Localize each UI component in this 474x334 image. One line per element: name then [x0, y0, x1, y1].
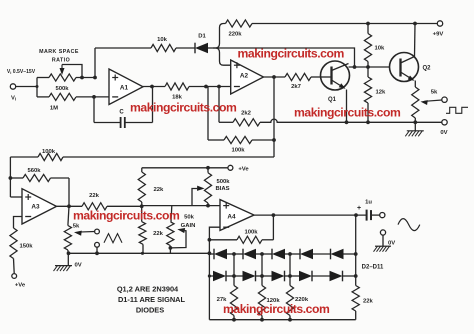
wire Q1 collector to divider [349, 65, 390, 69]
diode D6 [313, 249, 356, 260]
svg-text:makingcircuits.com: makingcircuits.com [223, 302, 330, 316]
svg-text:A1: A1 [120, 84, 129, 91]
wire 0V rail with hop over A2 line [260, 119, 442, 124]
svg-text:100k: 100k [244, 230, 258, 236]
svg-text:makingcircuits.com: makingcircuits.com [238, 47, 345, 61]
ground at output 0V [374, 240, 396, 251]
svg-text:D1: D1 [198, 34, 206, 40]
wire comparator node to Q1 collector [220, 48, 357, 69]
wire ladder column 3 [289, 254, 291, 276]
svg-text:Q2: Q2 [422, 66, 431, 72]
wire A3 - input to 150k [14, 217, 23, 229]
watermark 5 bottom [223, 302, 330, 316]
svg-text:22k: 22k [89, 193, 100, 199]
diode D7 [209, 271, 226, 282]
resistor 100k A2 feedback [208, 87, 276, 154]
svg-text:A2: A2 [240, 73, 249, 80]
resistor 500k mark-space potentiometer [37, 74, 97, 92]
svg-text:D2–D11: D2–D11 [362, 264, 384, 270]
svg-text:Vi 0.5V–15V: Vi 0.5V–15V [7, 69, 36, 75]
svg-text:makingcircuits.com: makingcircuits.com [130, 100, 237, 114]
resistor 560k [10, 168, 69, 207]
label D2-D11 [362, 264, 384, 270]
resistor 220k [226, 20, 253, 38]
svg-text:+: + [357, 205, 361, 212]
diode D9 [256, 271, 285, 282]
capacitor 1u output [357, 200, 380, 221]
ground below 5k [405, 122, 424, 136]
resistor 2k7 [285, 73, 321, 89]
svg-text:MARK SPACE: MARK SPACE [39, 49, 79, 55]
svg-text:makingcircuits.com: makingcircuits.com [294, 106, 401, 120]
resistor 120k [258, 276, 280, 320]
wire A1 + node up to 10k [94, 48, 96, 78]
svg-text:5k: 5k [73, 223, 80, 229]
svg-text:22k: 22k [153, 231, 164, 237]
label MARK SPACE RATIO [39, 49, 79, 63]
resistor 12k [364, 67, 386, 122]
potentiometer 50k GAIN [167, 206, 196, 254]
svg-text:0V: 0V [388, 240, 395, 246]
resistor 100k A4 feedback [209, 213, 275, 243]
op-amp A3 [22, 189, 57, 224]
resistor 150k [10, 228, 33, 273]
square wave symbol [446, 107, 468, 113]
svg-text:0V: 0V [75, 262, 82, 268]
svg-text:0V: 0V [440, 130, 447, 136]
watermark 2 mid-left [130, 100, 237, 114]
svg-text:50k: 50k [184, 214, 195, 220]
watermark 1 top [238, 47, 345, 61]
wire D1 to branch node [208, 47, 220, 49]
wire branch up to 220k [213, 24, 226, 49]
resistor 1M [37, 93, 109, 111]
ground at A3 0V [54, 253, 82, 271]
svg-text:GAIN: GAIN [181, 223, 196, 229]
diode D5 [285, 249, 313, 260]
svg-text:Vi: Vi [11, 96, 16, 102]
resistor 22k shaper right [352, 286, 373, 320]
potentiometer 500k BIAS [192, 168, 230, 208]
svg-text:+9V: +9V [433, 32, 444, 38]
svg-text:150k: 150k [19, 244, 33, 250]
svg-text:RATIO: RATIO [52, 57, 70, 63]
wire input to divider junction [16, 78, 39, 97]
svg-text:+Ve: +Ve [238, 166, 249, 172]
node +Ve terminal mid [228, 165, 249, 172]
svg-text:500k: 500k [55, 86, 69, 92]
svg-text:220k: 220k [228, 32, 242, 38]
svg-text:1M: 1M [50, 106, 58, 112]
op-amp A4 [220, 200, 254, 231]
diode D4 [256, 249, 285, 260]
resistor 27k [217, 276, 238, 320]
svg-text:DIODES: DIODES [136, 306, 164, 315]
op-amp A2 [231, 60, 264, 94]
wire ladder column 2 [261, 254, 263, 276]
diode D11 [312, 271, 355, 282]
resistor 22k from A3 output [82, 193, 144, 210]
wire Q2 collector to +9V [414, 24, 417, 57]
resistor 22k to shaper node [139, 206, 164, 253]
wire bottom rail [209, 318, 355, 322]
svg-text:5k: 5k [431, 90, 438, 96]
svg-text:2k2: 2k2 [241, 111, 252, 117]
potentiometer 5k [412, 87, 442, 122]
svg-text:12k: 12k [376, 90, 387, 96]
wire A4 - input down [208, 227, 221, 242]
wire signal node to A4 + input [142, 205, 220, 207]
svg-text:A4: A4 [227, 213, 236, 220]
svg-text:22k: 22k [154, 187, 165, 193]
wire A2 output [264, 75, 286, 79]
svg-text:100k: 100k [42, 149, 56, 155]
svg-text:C: C [119, 110, 124, 116]
svg-text:10k: 10k [157, 37, 168, 43]
diode D10 [285, 271, 312, 282]
svg-text:2k7: 2k7 [291, 84, 302, 90]
wire A1 output [143, 85, 165, 89]
svg-text:1u: 1u [365, 200, 372, 206]
wire Q1 emitter to 0V [346, 90, 348, 123]
node triangle 0V terminal [95, 242, 100, 253]
svg-text:560k: 560k [27, 168, 41, 174]
svg-text:A3: A3 [31, 204, 40, 211]
wire ladder column 1 [233, 254, 235, 276]
diode D1 [195, 34, 208, 54]
watermark 3 mid-right [294, 106, 401, 120]
resistor 10k feedback [95, 37, 195, 52]
wire shaper right rail [354, 215, 358, 285]
wire A3 output [57, 204, 83, 208]
svg-text:10k: 10k [375, 46, 386, 52]
node triangle output terminal [95, 229, 100, 234]
wire A4 output to capacitor [254, 213, 366, 217]
resistor 18k [165, 83, 231, 101]
resistor 2k2 [219, 87, 260, 126]
transistor Q2 [390, 53, 432, 82]
triangle wave symbol [104, 234, 122, 243]
svg-text:Q1,2 ARE 2N3904: Q1,2 ARE 2N3904 [117, 285, 179, 294]
node Vi input terminal [7, 69, 36, 102]
transistor Q1 [321, 61, 350, 103]
mark-space wiper arm [60, 65, 83, 78]
op-amp A1 [109, 69, 143, 105]
resistor 100k A3 positive feedback [9, 140, 275, 197]
sine wave symbol [398, 219, 420, 231]
wire branch down to A2 + input [216, 48, 231, 65]
node +9V terminal [433, 21, 444, 38]
wire Q2 emitter to 5k [414, 81, 416, 88]
svg-text:100k: 100k [231, 148, 245, 154]
wire 0V rail bottom left [67, 251, 210, 255]
node +Ve terminal bottom left [12, 274, 26, 289]
wire +9V rail [252, 22, 437, 26]
svg-text:makingcircuits.com: makingcircuits.com [73, 208, 180, 222]
diode D8 [227, 271, 256, 282]
resistor 220k [286, 276, 308, 320]
watermark 4 lower-left [73, 208, 180, 222]
node 0V output terminal [380, 230, 385, 246]
node square-wave output terminal [442, 97, 447, 102]
capacitor C [94, 87, 153, 129]
svg-text:D1-11 ARE SIGNAL: D1-11 ARE SIGNAL [118, 295, 186, 304]
svg-text:500k: 500k [216, 179, 230, 185]
diode D3 [227, 249, 256, 260]
wire shaper left rail [208, 240, 212, 320]
note transistor and diode types [117, 285, 186, 315]
diode D2 [209, 249, 227, 260]
node 0V terminal right [440, 120, 447, 136]
resistor 10k divider [364, 24, 385, 68]
svg-text:Q1: Q1 [328, 97, 337, 103]
svg-text:+Ve: +Ve [15, 283, 26, 289]
svg-text:22k: 22k [363, 299, 374, 305]
resistor 22k to +Ve [138, 168, 164, 207]
node sine output terminal [380, 213, 385, 218]
wire +Ve feed [142, 166, 228, 170]
svg-text:BIAS: BIAS [215, 186, 229, 192]
wire A2 output down to 100k node [273, 77, 275, 140]
potentiometer 5k triangle level [64, 206, 94, 253]
